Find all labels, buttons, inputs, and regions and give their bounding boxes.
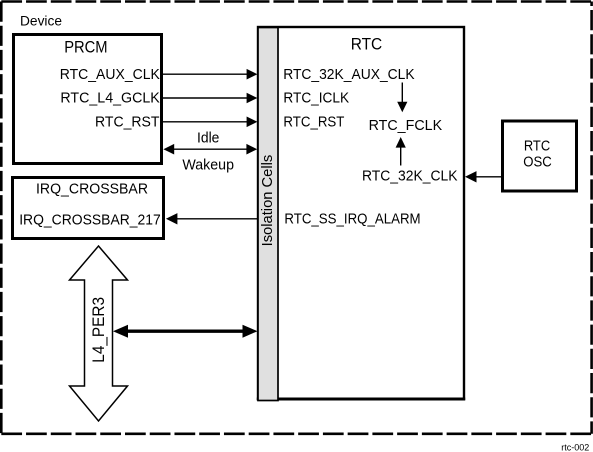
block IRQ_CROSSBAR: [13, 178, 164, 239]
bus L4_PER3 vertical double arrow: [70, 246, 128, 421]
svg-text:Idle: Idle: [197, 130, 219, 147]
svg-text:rtc-002: rtc-002: [561, 442, 589, 452]
svg-text:IRQ_CROSSBAR_217: IRQ_CROSSBAR_217: [19, 212, 161, 229]
svg-text:RTC_32K_CLK: RTC_32K_CLK: [362, 167, 458, 184]
wire RTC_32K_CLK up to RTC_FCLK: [400, 147, 402, 166]
wire RTC_32K_AUX_CLK down to RTC_FCLK: [401, 83, 403, 103]
block RTC OSC: [503, 121, 577, 191]
block PRCM: [14, 35, 162, 164]
svg-text:Wakeup: Wakeup: [182, 156, 234, 173]
svg-text:RTC_L4_GCLK: RTC_L4_GCLK: [60, 90, 159, 107]
wire Idle/Wakeup double-headed arrow: [172, 148, 248, 150]
svg-text:Device: Device: [20, 13, 62, 29]
svg-text:L4_PER3: L4_PER3: [89, 297, 108, 363]
isolation cells bar: [258, 28, 278, 401]
wire RTC_L4_GCLK PRCM to isolation cells: [163, 97, 248, 99]
svg-text:RTC_FCLK: RTC_FCLK: [369, 117, 443, 134]
svg-text:RTC_SS_IRQ_ALARM: RTC_SS_IRQ_ALARM: [284, 210, 420, 227]
svg-text:Isolation Cells: Isolation Cells: [259, 155, 276, 247]
svg-text:RTC: RTC: [524, 138, 550, 155]
svg-text:RTC_RST: RTC_RST: [95, 113, 160, 130]
svg-text:RTC_ICLK: RTC_ICLK: [283, 90, 349, 107]
wire RTC_RST PRCM to isolation cells: [163, 121, 248, 123]
wire L4_PER3 bus to isolation cells (thick double arrow): [126, 330, 245, 333]
device outer dashed boundary: [1, 0, 591, 3]
block RTC: [258, 27, 464, 399]
svg-text:IRQ_CROSSBAR: IRQ_CROSSBAR: [36, 181, 148, 198]
svg-text:RTC_32K_AUX_CLK: RTC_32K_AUX_CLK: [283, 66, 414, 83]
wire RTC_AUX_CLK PRCM to isolation cells: [163, 73, 248, 75]
svg-text:RTC_AUX_CLK: RTC_AUX_CLK: [60, 66, 160, 83]
svg-text:OSC: OSC: [523, 154, 552, 171]
wire RTC OSC to RTC (RTC_32K_CLK): [476, 176, 501, 178]
wire RTC_SS_IRQ_ALARM to IRQ_CROSSBAR: [177, 218, 257, 220]
svg-text:PRCM: PRCM: [64, 38, 107, 57]
svg-text:RTC_RST: RTC_RST: [283, 113, 344, 130]
svg-text:RTC: RTC: [351, 35, 383, 54]
